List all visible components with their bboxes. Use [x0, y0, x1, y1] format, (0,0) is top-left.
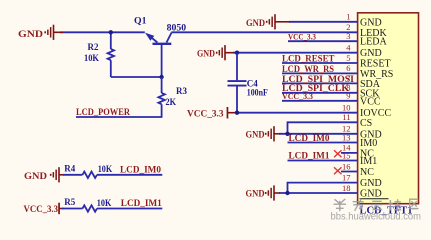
- wire pin4 GND net: [233, 52, 358, 54]
- wire pin8 LCD_SPI_CLK: [282, 92, 358, 94]
- junction R2 top: [109, 30, 113, 34]
- power port GND top (to pin1): [246, 14, 290, 29]
- junction C4 bottom: [235, 111, 239, 115]
- svg-text:VCC: VCC: [360, 96, 381, 107]
- svg-text:6: 6: [346, 63, 350, 73]
- no-ERC X pin16: [334, 167, 342, 174]
- capacitor C4: [228, 53, 247, 113]
- wire pin9 VCC_3.3: [282, 100, 358, 102]
- svg-text:Q1: Q1: [134, 15, 147, 25]
- power port GND mid (to pin4): [197, 45, 234, 60]
- svg-text:11: 11: [342, 112, 350, 122]
- char qu: [410, 199, 419, 208]
- svg-text:VCC_3.3: VCC_3.3: [288, 31, 316, 41]
- wire pin18: [279, 192, 358, 194]
- svg-text:CS: CS: [360, 118, 372, 129]
- transistor Q1: [145, 33, 172, 77]
- pin names: [360, 17, 393, 199]
- char yun: [371, 201, 383, 209]
- svg-text:GND: GND: [360, 17, 382, 28]
- svg-text:R2: R2: [88, 42, 99, 52]
- wire pin13 LCD_IM0: [288, 142, 358, 144]
- junction pin17/18: [285, 191, 289, 195]
- svg-text:18: 18: [342, 183, 351, 193]
- svg-text:100nF: 100nF: [247, 88, 268, 98]
- watermark row1 CJK glyphs: [334, 199, 419, 211]
- svg-text:10K: 10K: [97, 198, 112, 208]
- svg-text:VCC_3.3: VCC_3.3: [187, 108, 224, 118]
- svg-text:LCD_IM0: LCD_IM0: [289, 133, 331, 143]
- svg-text:10K: 10K: [98, 164, 113, 174]
- wire pin11 CS: [288, 122, 358, 134]
- power port GND pins11/12: [246, 126, 281, 141]
- resistor R4: [63, 172, 162, 178]
- svg-text:GND: GND: [18, 29, 44, 39]
- svg-text:IM1: IM1: [360, 156, 377, 167]
- svg-text:GND: GND: [24, 171, 48, 181]
- svg-text:16: 16: [342, 161, 351, 171]
- junction base node: [159, 75, 163, 79]
- junction C4 top: [235, 51, 239, 55]
- char hua: [334, 199, 347, 211]
- wire pin15 LCD_IM1: [288, 160, 358, 162]
- svg-text:LEDA: LEDA: [360, 37, 387, 48]
- wire pin16 stub: [341, 171, 358, 173]
- power port GND pins17/18: [246, 185, 281, 200]
- wire pin10 IOVCC: [237, 112, 358, 114]
- char wei: [353, 199, 364, 211]
- power port VCC_3.3 mid (to pin10): [187, 107, 237, 119]
- svg-text:GND: GND: [360, 189, 382, 200]
- svg-text:LCD_IM1: LCD_IM1: [121, 198, 163, 208]
- svg-text:8050: 8050: [167, 23, 187, 33]
- svg-text:10: 10: [342, 103, 351, 113]
- svg-text:GND: GND: [360, 178, 382, 189]
- wire pin14 stub: [341, 152, 358, 154]
- resistor R2: [108, 32, 162, 77]
- svg-text:17: 17: [342, 172, 351, 182]
- svg-text:RESET: RESET: [360, 59, 391, 70]
- svg-text:5: 5: [346, 53, 350, 63]
- resistor R3: [158, 77, 164, 117]
- svg-text:LCD_IM1: LCD_IM1: [289, 151, 331, 161]
- svg-text:GND: GND: [246, 18, 265, 28]
- svg-text:R5: R5: [64, 197, 75, 207]
- svg-text:1: 1: [346, 12, 350, 22]
- wire pin7 LCD_SPI_MOSI: [282, 82, 358, 84]
- svg-text:3: 3: [346, 31, 350, 41]
- svg-text:VCC_3.3: VCC_3.3: [24, 204, 59, 214]
- no-ERC X pin14: [334, 150, 342, 157]
- wire pin2 collector net: [171, 31, 357, 33]
- pin18 name underline: [360, 198, 389, 200]
- wire pin5 LCD_RESET: [282, 62, 358, 64]
- svg-text:bbs.huaweicloud.com: bbs.huaweicloud.com: [331, 211, 422, 222]
- power port GND top-left: [18, 25, 63, 40]
- svg-text:LCD_RESET: LCD_RESET: [282, 53, 335, 63]
- svg-text:R3: R3: [176, 86, 187, 96]
- wire pin6 LCD_WR_RS: [282, 72, 358, 74]
- wire pin3 VCC_3.3: [288, 40, 358, 42]
- power port VCC_3.3 row B: [24, 203, 65, 215]
- svg-text:LCD_IM0: LCD_IM0: [120, 164, 162, 174]
- svg-text:LCD_POWER: LCD_POWER: [76, 108, 130, 118]
- svg-text:NC: NC: [360, 167, 374, 178]
- power port GND row A: [24, 167, 64, 182]
- svg-text:GND: GND: [197, 48, 215, 58]
- wire top-left GND to transistor: [60, 31, 145, 33]
- svg-text:4: 4: [346, 43, 351, 53]
- svg-text:15: 15: [342, 150, 351, 160]
- connector J1 LCD_TFT body: [358, 13, 419, 204]
- wire pin1 stub: [289, 21, 358, 23]
- svg-text:GND: GND: [246, 189, 265, 199]
- resistor R5: [62, 205, 162, 211]
- svg-text:2K: 2K: [166, 97, 177, 107]
- svg-text:IM0: IM0: [360, 138, 377, 149]
- junction pin11/12: [285, 132, 289, 136]
- svg-text:GND: GND: [246, 129, 265, 139]
- wire pin17: [288, 183, 358, 193]
- svg-text:VCC_3.3: VCC_3.3: [282, 91, 313, 101]
- char she: [389, 199, 402, 210]
- svg-text:LCD_WR_RS: LCD_WR_RS: [282, 64, 334, 74]
- svg-text:10K: 10K: [84, 53, 99, 63]
- pin numbers 1-18: [342, 12, 351, 193]
- wire pin12 GND: [279, 133, 358, 135]
- svg-text:13: 13: [342, 132, 351, 142]
- wire LCD_POWER: [76, 116, 162, 118]
- svg-text:R4: R4: [64, 163, 75, 173]
